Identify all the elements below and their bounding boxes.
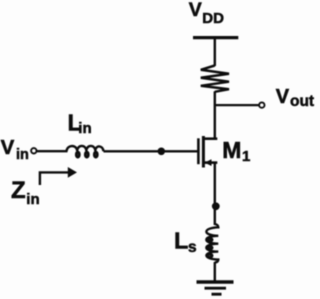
transistor M1 [198, 136, 217, 168]
wire resistor to drain [214, 91, 216, 140]
transistor M1 label [222, 137, 250, 165]
svg-text:in: in [16, 147, 29, 163]
svg-text:in: in [26, 191, 39, 208]
drain stub [203, 137, 217, 140]
svg-text:V: V [1, 136, 15, 159]
wire source down [214, 163, 216, 225]
inductor Lin label [68, 109, 92, 137]
wire Lin to gate [104, 150, 198, 152]
svg-text:1: 1 [242, 148, 250, 165]
wire Ls to ground [214, 262, 216, 282]
svg-text:V: V [189, 0, 202, 21]
inductor Ls label [174, 227, 197, 256]
wire VDD stem [214, 38, 216, 66]
terminal Vin [31, 148, 36, 153]
svg-text:Z: Z [11, 177, 26, 204]
node Vout label [276, 86, 314, 110]
svg-text:out: out [290, 93, 314, 110]
inductor Ls [206, 224, 218, 263]
source arrow [205, 159, 212, 166]
svg-text:V: V [276, 86, 290, 108]
junction source node [212, 202, 220, 210]
wire Vout tap [215, 104, 259, 106]
ground [197, 282, 234, 294]
svg-text:s: s [188, 239, 197, 256]
channel bar [202, 136, 205, 168]
node Zin label [11, 177, 40, 208]
wire Vin to Lin [37, 150, 68, 152]
inductor Lin [67, 146, 104, 157]
terminal Vout [259, 102, 264, 107]
svg-text:L: L [174, 227, 188, 253]
impedance arrow Zin [40, 167, 77, 185]
node VDD label [189, 0, 224, 27]
node Vin label [1, 136, 29, 163]
power rail VDD [193, 36, 238, 39]
gate bar [197, 138, 200, 164]
junction gate node [158, 148, 166, 156]
svg-text:DD: DD [202, 10, 224, 27]
svg-text:M: M [222, 137, 241, 163]
source stub [203, 161, 217, 164]
resistor [201, 66, 229, 92]
svg-text:in: in [78, 120, 91, 137]
